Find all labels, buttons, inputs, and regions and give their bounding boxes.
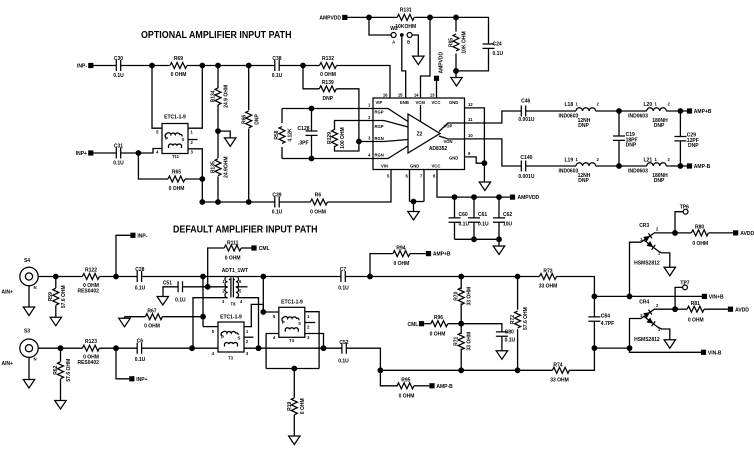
svg-text:AD8352: AD8352 [429, 146, 448, 152]
resistor R85 10KOHM [449, 17, 468, 71]
resistor R95 0 OHM [380, 370, 429, 399]
svg-text:11: 11 [468, 117, 473, 122]
junction node R85 top [453, 15, 459, 21]
svg-text:HSMS2812: HSMS2812 [634, 260, 660, 266]
svg-text:15: 15 [398, 93, 403, 98]
stub T4 pin 2 [305, 322, 315, 324]
svg-text:R72: R72 [510, 315, 516, 324]
wire VOP pin 11 to C46 [465, 111, 522, 123]
ground (C51) [157, 297, 168, 306]
internal wire pin1 [373, 109, 408, 122]
capacitor C6 0.1U [135, 339, 146, 363]
svg-text:C6: C6 [137, 339, 144, 345]
svg-text:N: N [34, 285, 37, 290]
transformer T3 ETC1-1-9 [212, 315, 249, 361]
svg-text:IND0603: IND0603 [628, 113, 648, 119]
svg-text:0.1U: 0.1U [478, 222, 489, 228]
junction node C29 bottom [678, 163, 684, 169]
junction node B1 [136, 150, 142, 156]
svg-text:AMP+B: AMP+B [694, 109, 712, 115]
ground (S4 shell) [23, 286, 34, 316]
svg-text:C39: C39 [272, 193, 281, 199]
svg-text:C60: C60 [459, 212, 468, 218]
svg-text:R67: R67 [147, 308, 156, 314]
svg-text:0 OHM: 0 OHM [300, 398, 306, 414]
svg-text:DNP: DNP [688, 143, 699, 149]
svg-text:R58: R58 [274, 130, 280, 139]
junction node C52/R95 [378, 367, 384, 373]
capacitor C128 3PF [298, 109, 318, 159]
svg-text:DNP: DNP [654, 178, 665, 184]
svg-text:0.1U: 0.1U [113, 161, 124, 167]
svg-text:VCM: VCM [416, 100, 426, 105]
ground (R62) [55, 401, 66, 410]
svg-text:12: 12 [468, 102, 473, 107]
ground (decoupling rail) [493, 239, 504, 254]
junction node W2 feed [366, 15, 372, 21]
svg-text:RGP: RGP [375, 110, 384, 115]
wire T3 pin 3 to C52 [244, 347, 342, 349]
diode pair CR3 HSMS2812 [630, 223, 673, 296]
junction node C51/R67 column top [200, 274, 206, 280]
junction node C19 bottom [616, 163, 622, 169]
svg-text:VIN-B: VIN-B [708, 350, 722, 356]
wire down to INP+ port [116, 348, 129, 379]
svg-text:IND0603: IND0603 [559, 168, 579, 174]
wire C38 to R132 [279, 65, 319, 67]
svg-text:R73: R73 [543, 268, 552, 274]
resistor R132 0 OHM [320, 56, 337, 78]
junction node C128 bottom [309, 156, 315, 162]
inductor L20 180NH DNP [628, 102, 670, 130]
wire node to pin 3 [359, 141, 373, 143]
wire L20 to AMP+B [666, 110, 687, 112]
svg-text:RES0402: RES0402 [77, 289, 99, 295]
capacitor C28 0.1U [135, 267, 146, 291]
svg-text:VIN: VIN [381, 164, 388, 169]
wire GND pin 9 [465, 157, 485, 163]
svg-text:L19: L19 [565, 158, 574, 164]
svg-text:33 OHM: 33 OHM [550, 377, 569, 383]
junction node C1 on bottom row [199, 199, 205, 205]
svg-text:CR3: CR3 [639, 223, 649, 229]
junction node A1 [149, 63, 155, 69]
svg-text:T3: T3 [228, 356, 234, 361]
svg-text:DEFAULT AMPLIFIER INPUT PAT: DEFAULT AMPLIFIER INPUT PATH [173, 224, 318, 235]
port AVDD (R81) [728, 307, 749, 314]
resistor R72 57.6 OHM [510, 277, 529, 371]
svg-text:16: 16 [383, 93, 388, 98]
wire lower row [380, 369, 552, 371]
resistor R123 0 OHM RES0402 [77, 339, 99, 366]
wire R74 to VIN-B row [569, 348, 594, 370]
svg-text:ETC1-1-9: ETC1-1-9 [164, 115, 186, 121]
wire S3 to R123 [38, 347, 82, 349]
port AMP-B (R95) [429, 383, 453, 390]
svg-text:0.1U: 0.1U [135, 357, 146, 363]
junction node T8 right [260, 274, 266, 280]
junction node R94 tap [367, 274, 373, 280]
junction node R67/T3.5 [200, 314, 206, 320]
wire T1 pin 3 down to C39 row [188, 149, 202, 202]
test point TP7 [675, 280, 690, 309]
svg-text:0.1U: 0.1U [272, 73, 283, 79]
svg-text:R69: R69 [174, 56, 183, 62]
resistor R134 24.9 OHM [211, 66, 230, 132]
wire INP- to C30 [93, 65, 116, 67]
wire AMPVDD to R131 [347, 16, 397, 18]
svg-text:DNP: DNP [626, 143, 637, 149]
junction node B2 [199, 176, 205, 182]
junction node GND6/7 [411, 199, 417, 205]
resistor R73 33 OHM [539, 268, 558, 289]
svg-text:C84: C84 [601, 313, 610, 319]
resistor R122 0 OHM RES0402 [77, 267, 99, 294]
ground (CR3) [664, 267, 675, 276]
junction node C3 (R66 col) [246, 199, 252, 205]
svg-text:VOP: VOP [444, 124, 453, 129]
svg-text:0.1U: 0.1U [135, 285, 146, 291]
junction node R70 top [458, 274, 464, 280]
internal wire VCM [420, 105, 422, 122]
svg-text:0 OHM: 0 OHM [688, 317, 704, 323]
stub T3 pin 2 [244, 336, 253, 338]
svg-text:.3PF: .3PF [298, 141, 309, 147]
svg-text:0 OHM: 0 OHM [171, 72, 187, 78]
resistor R139 DNP (feedback) [303, 66, 359, 142]
port VIN+B [702, 294, 724, 301]
svg-text:0.001U: 0.001U [518, 117, 535, 123]
junction node C60 [452, 194, 458, 200]
junction node T8.4 lands [256, 345, 262, 351]
svg-text:T11: T11 [172, 154, 180, 159]
port VIN-B [701, 350, 722, 357]
resistor R6 0 OHM [310, 193, 327, 216]
svg-text:33 OHM: 33 OHM [467, 287, 473, 306]
wire C28 to T8 [142, 276, 264, 278]
junction node R72 top [515, 274, 521, 280]
wire T3 pin 1 loop to T4 pin 5 [244, 304, 263, 326]
port AMPVDD (rail) [510, 195, 540, 202]
svg-text:13: 13 [430, 93, 435, 98]
wire T8 pin 2 tap [208, 286, 228, 288]
svg-text:R111: R111 [227, 240, 239, 246]
resistor R135 24.9 OHM [211, 131, 230, 202]
svg-text:RGN: RGN [375, 153, 384, 158]
wire R131 to C24 column [414, 17, 488, 44]
svg-text:0 OHM: 0 OHM [692, 241, 708, 247]
wire L19 to L21 [596, 165, 647, 167]
junction node bottom rail C62 [496, 236, 502, 242]
wire T8 pin 4 down to C52 row [236, 298, 259, 349]
svg-text:C28: C28 [135, 267, 144, 273]
junction node INP+ tap [113, 345, 119, 351]
wire into T3 pin 5 [203, 326, 218, 328]
junction node R72 bottom [515, 367, 521, 373]
svg-text:C30: C30 [114, 56, 123, 62]
wire RGN rail (pin 4) [282, 158, 373, 160]
svg-text:CML: CML [407, 322, 418, 328]
svg-text:0.1U: 0.1U [338, 285, 349, 291]
resistor R96 0 OHM [424, 315, 461, 337]
svg-text:R94: R94 [396, 245, 405, 251]
svg-text:R6: R6 [315, 193, 322, 199]
port INP+ (second row) [76, 150, 94, 157]
wire S4 row down to T4 pin 5 [263, 277, 279, 313]
connector S3 [20, 329, 38, 362]
svg-text:0 OHM: 0 OHM [225, 255, 241, 261]
stub T1 pin 2 [188, 139, 198, 141]
junction node VCM feed [427, 15, 433, 21]
wire VCC pin 8 to rail [437, 170, 510, 198]
op-amp triangle [408, 114, 440, 153]
svg-text:R62: R62 [53, 365, 59, 374]
junction node R19 top [291, 366, 297, 372]
inductor L21 180NH DNP [628, 157, 670, 184]
svg-text:DNP: DNP [654, 123, 665, 129]
wire W2 B to ground [412, 35, 418, 56]
svg-text:R135: R135 [211, 161, 217, 173]
junction node R85 bottom [453, 68, 459, 74]
port CML (R111) [251, 245, 269, 252]
wire to ground arm [218, 131, 230, 138]
junction node pin2/C51/R111 [205, 284, 211, 290]
svg-text:ADT1_1WT: ADT1_1WT [222, 268, 248, 274]
junction node R70/R71/R96 [458, 321, 464, 327]
resistor R59 57.6 OHM [48, 277, 67, 318]
svg-text:GND: GND [449, 156, 458, 161]
wire C30 to node A1 [121, 65, 170, 67]
resistor R111 0 OHM [208, 240, 252, 286]
junction node R59 top [53, 274, 59, 280]
wire T8 pin 3 down to S3 row [193, 298, 228, 349]
connector S4 [20, 258, 38, 290]
junction node R71 bottom [458, 367, 464, 373]
wire C6 to T3 pin 4 [142, 347, 218, 349]
internal wire pin4 [373, 146, 408, 159]
wire T1 pin 4 to node B1 [138, 149, 162, 154]
junction node C19 top [616, 108, 622, 114]
wire RGP rail (pin 1) [282, 108, 373, 110]
capacitor C52 0.1U [338, 340, 349, 365]
port AMP+B (R94) [426, 251, 451, 258]
stub T8 pin 5 [236, 286, 248, 288]
ground (S3 shell) [23, 357, 34, 388]
capacitor C19 18PF DNP [613, 111, 638, 166]
junction node between R134/R135 [215, 128, 221, 134]
junction node T8.3 lands [189, 345, 195, 351]
internal wire pin3 [373, 140, 408, 142]
capacitor C24 0.1U [483, 42, 504, 58]
resistor R19 0 OHM [287, 369, 306, 437]
wire R6 to VIN pin 5 [327, 170, 391, 203]
svg-text:L20: L20 [644, 102, 653, 108]
svg-text:C128: C128 [298, 126, 310, 132]
svg-text:C24: C24 [493, 42, 502, 48]
svg-text:RES0402: RES0402 [77, 360, 99, 366]
svg-text:T4: T4 [289, 338, 295, 343]
capacitor C62 10U [493, 197, 513, 239]
capacitor C38 0.1U [272, 56, 283, 79]
svg-text:0 OHM: 0 OHM [310, 210, 326, 216]
svg-text:R74: R74 [553, 362, 562, 368]
ground (R67) [119, 317, 130, 327]
svg-text:GND: GND [449, 100, 458, 105]
junction node A2 [199, 63, 205, 69]
svg-text:R96: R96 [434, 315, 443, 321]
capacitor C46 0.001U [518, 99, 535, 123]
inductor L18 12NH DNP [559, 102, 600, 130]
ground (W2 B) [413, 56, 424, 65]
svg-text:S3: S3 [24, 329, 30, 335]
svg-text:VIP: VIP [376, 100, 383, 105]
svg-text:4.12K: 4.12K [287, 128, 293, 142]
svg-text:OPTIONAL AMPLIFIER INPUT PA: OPTIONAL AMPLIFIER INPUT PATH [141, 30, 292, 41]
port INP+ (to optional path) [129, 376, 147, 383]
junction node TP7/CR4.2 [672, 306, 678, 312]
wire R65 to node B2 [185, 178, 202, 180]
wire VCM pin 14 to R131 node [421, 17, 431, 98]
wire S4 to R122 [38, 276, 82, 278]
junction node C29 top [678, 108, 684, 114]
wire C31 to node B1 [121, 152, 139, 154]
svg-text:GND: GND [410, 164, 419, 169]
svg-text:AMP-B: AMP-B [694, 164, 711, 170]
internal wire VOP [439, 123, 465, 132]
svg-text:R134: R134 [211, 90, 217, 102]
wire VIN-B row [594, 348, 701, 352]
svg-text:AMPVDD: AMPVDD [439, 51, 445, 73]
wire C52 to lower attenuator row [346, 348, 380, 370]
junction node T4.3 lands [321, 345, 327, 351]
resistor R70 33 OHM [454, 277, 473, 324]
svg-text:INP+: INP+ [136, 377, 147, 383]
svg-text:R65: R65 [172, 170, 181, 176]
svg-text:CR4: CR4 [639, 299, 649, 305]
resistor R129 100 OHM [327, 121, 373, 152]
svg-text:0 OHM: 0 OHM [144, 324, 160, 330]
capacitor C140 0.001U [518, 155, 535, 180]
junction node CR3.3 [627, 294, 633, 300]
svg-text:T8: T8 [231, 302, 237, 307]
svg-text:0 OHM: 0 OHM [430, 331, 446, 337]
wire R69 to C38 [187, 65, 275, 67]
svg-text:C7: C7 [340, 267, 347, 273]
svg-text:ENB: ENB [400, 100, 409, 105]
svg-text:C61: C61 [478, 212, 487, 218]
resistor R131 10KOHM [395, 8, 416, 31]
svg-text:R70: R70 [454, 291, 460, 300]
svg-text:INP+: INP+ [76, 151, 87, 157]
resistor R71 33 OHM [454, 324, 473, 371]
svg-text:C46: C46 [521, 99, 530, 105]
node AMPVDD at VCC pin 13 [434, 51, 445, 98]
svg-text:AIN+: AIN+ [2, 361, 14, 367]
svg-text:C80: C80 [505, 329, 514, 335]
svg-text:L18: L18 [565, 102, 574, 108]
port CML (R96) [407, 321, 424, 328]
svg-text:0.1U: 0.1U [505, 338, 516, 344]
svg-text:VCC: VCC [432, 164, 441, 169]
junction node A4 (R66 column) [246, 63, 252, 69]
svg-text:24.9 OHM: 24.9 OHM [224, 85, 230, 108]
diode pair CR4 HSMS2812 [630, 299, 673, 348]
wire VIN+B row [594, 295, 702, 297]
resistor R58 4.12K [274, 109, 293, 159]
svg-text:DNP: DNP [578, 123, 589, 129]
wire L21 to AMP-B [666, 165, 687, 167]
svg-text:AMP-B: AMP-B [436, 384, 453, 390]
svg-text:L21: L21 [644, 158, 653, 164]
svg-text:57.6 OHM: 57.6 OHM [61, 285, 67, 308]
wire R123 to C6 [99, 347, 137, 349]
resistor R80 0 OHM [675, 225, 733, 247]
capacitor C30 0.1U [113, 56, 124, 79]
junction node TP6/CR3.2 [672, 230, 678, 236]
port INP- (top row) [77, 63, 93, 70]
wire INP+ to C31 [93, 152, 116, 154]
ground (R85/C24) [451, 71, 462, 86]
junction node C84 bottom [592, 345, 598, 351]
svg-text:DNP: DNP [323, 96, 334, 102]
svg-text:33 OHM: 33 OHM [467, 332, 473, 351]
transformer T4 ETC1-1-9 [273, 300, 310, 344]
capacitor C29 12PF DNP [674, 111, 699, 166]
svg-text:B: B [407, 40, 410, 45]
svg-text:HSMS2812: HSMS2812 [634, 337, 660, 343]
svg-text:RGP: RGP [375, 124, 384, 129]
capacitor C80 0.1U [461, 324, 515, 351]
svg-text:R123: R123 [85, 339, 97, 345]
svg-text:ETC1-1-9: ETC1-1-9 [220, 315, 242, 321]
wire C140 to L19 [526, 165, 576, 167]
svg-text:0.1U: 0.1U [493, 51, 504, 57]
svg-text:R139: R139 [322, 80, 334, 86]
svg-text:R80: R80 [695, 225, 704, 231]
wire bottom row to C39 [202, 201, 274, 203]
svg-text:0.1U: 0.1U [459, 222, 470, 228]
svg-text:CML: CML [259, 246, 270, 252]
capacitor C31 0.1U [113, 144, 124, 167]
wire VON pin 10 to C140 [465, 139, 522, 166]
resistor R66 DNP [241, 66, 260, 203]
wire R122 to C28 [99, 276, 137, 278]
junction node CR4.3 [627, 345, 633, 351]
wire GND pin 12 [465, 108, 485, 163]
svg-text:0.1U: 0.1U [113, 73, 124, 79]
ground (pins 9,12) [479, 163, 490, 190]
svg-text:ETC1-1-9: ETC1-1-9 [281, 300, 303, 306]
wire loop rail under T4 [266, 368, 319, 370]
svg-text:IND0603: IND0603 [628, 168, 648, 174]
junction node T4 pin 5 [260, 309, 266, 315]
svg-text:R122: R122 [85, 267, 97, 273]
internal wire pin2 [373, 121, 408, 128]
svg-text:10: 10 [468, 133, 473, 138]
port AVDD (R80) [733, 230, 754, 237]
wire W2 center to ENB pin 15 [402, 37, 406, 98]
ground (R134/R135 junction) [225, 138, 236, 147]
ground (R59) [50, 317, 61, 326]
wire T4 pin 4 down to loop rail [266, 334, 279, 369]
inductor L19 12NH DNP [559, 157, 600, 184]
wire decoupling bottom rail [455, 238, 500, 240]
svg-text:R66: R66 [241, 115, 247, 124]
resistor R67 0 OHM [125, 308, 204, 329]
svg-text:R131: R131 [400, 8, 412, 14]
svg-text:R19: R19 [287, 402, 293, 411]
svg-text:RGN: RGN [375, 136, 384, 141]
